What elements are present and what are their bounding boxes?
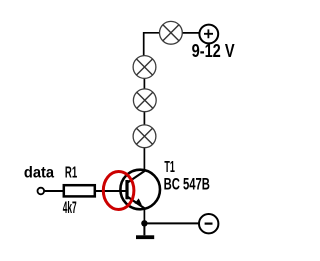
svg-text:T1: T1 [164, 159, 175, 176]
svg-text:R1: R1 [65, 165, 77, 182]
svg-text:BC 547B: BC 547B [164, 176, 210, 194]
svg-text:data: data [24, 164, 55, 181]
svg-text:9-12 V: 9-12 V [192, 41, 235, 61]
svg-text:4k7: 4k7 [63, 199, 77, 217]
